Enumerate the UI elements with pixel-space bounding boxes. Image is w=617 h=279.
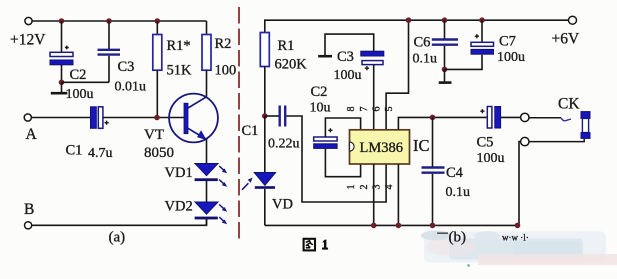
label (b) faint	[437, 230, 529, 267]
wire R2 bottom to collector	[206, 70, 208, 96]
wire C2 bottom lead	[61, 65, 63, 83]
wire pin5 output row	[398, 117, 487, 129]
wire R1 bottom lead	[156, 70, 158, 117]
svg-text:1: 1	[346, 185, 357, 190]
wire C3 top to ground elbow	[325, 34, 374, 55]
svg-text:C1: C1	[242, 123, 259, 139]
svg-text:R1: R1	[278, 38, 295, 54]
node junction C2 top	[59, 18, 65, 24]
svg-text:(b): (b)	[449, 230, 467, 246]
wire bottom rail right	[265, 224, 520, 226]
wire VD2 to rail B	[206, 219, 208, 225]
wire C2-C3 bottom link	[62, 81, 110, 83]
capacitor C3 0.01u	[98, 50, 147, 95]
wire C5 to output terminal	[501, 116, 521, 118]
svg-text:VD1: VD1	[165, 165, 193, 181]
ground under C6	[439, 69, 452, 82]
ground under C2	[51, 82, 68, 93]
svg-text:4.7u: 4.7u	[88, 146, 113, 161]
pin 4 label	[384, 185, 395, 190]
svg-text:B: B	[24, 201, 34, 218]
svg-text:0.22u: 0.22u	[268, 137, 300, 152]
wire C2 bottom to pin1	[325, 149, 360, 177]
wire A to C1	[32, 117, 91, 119]
wire VD to bottom rail	[264, 189, 266, 226]
pin 2 label	[359, 185, 370, 190]
node junction R1 top	[155, 18, 161, 24]
node junction C4 top	[430, 115, 436, 121]
svg-text:w·w ·l·: w·w ·l·	[502, 233, 529, 243]
svg-text:R2: R2	[215, 36, 232, 52]
wire C3 top lead	[108, 21, 110, 49]
pin 1 label	[346, 185, 357, 190]
capacitor C5 100u	[477, 107, 505, 167]
svg-text:A: A	[26, 126, 38, 143]
wire R1 top lead	[156, 21, 158, 35]
dashed separator line	[238, 7, 240, 240]
wire node to VD	[264, 116, 266, 172]
op-amp IC LM386	[350, 130, 410, 164]
svg-text:51K: 51K	[167, 63, 193, 79]
wire rail B	[32, 219, 207, 225]
svg-text:C1: C1	[66, 143, 83, 159]
label (a)	[109, 230, 126, 246]
node junction pin4 rail	[396, 223, 402, 229]
photodiode VD	[242, 173, 293, 213]
svg-text:100u: 100u	[66, 87, 94, 102]
capacitor C2 10u (pin1-pin8)	[310, 84, 338, 148]
wire R2 top lead	[206, 21, 208, 35]
node junction C2 bottom	[59, 80, 65, 86]
terminal output top	[521, 113, 529, 121]
jack switch hook	[561, 118, 571, 121]
wire C6 top lead	[444, 20, 446, 39]
svg-text:100u: 100u	[334, 68, 362, 83]
svg-text:10u: 10u	[310, 101, 331, 116]
svg-text:(a): (a)	[109, 230, 126, 246]
wire C3 bottom to pin7	[373, 65, 375, 130]
node junction C4 rail	[430, 223, 436, 229]
transistor VT 8050	[144, 94, 218, 161]
svg-text:VD: VD	[272, 197, 293, 213]
wire C2 top lead	[61, 21, 63, 53]
wire emitter to VD1	[206, 139, 208, 164]
wire VD1 to VD2	[206, 181, 208, 202]
svg-text:VT: VT	[144, 127, 164, 143]
terminal output bottom	[521, 137, 529, 145]
svg-text:7: 7	[359, 107, 370, 112]
wire R1 bottom to node	[264, 67, 266, 117]
node junction C6/C7 bottom	[442, 67, 448, 73]
node junction R1/C1/VD	[262, 113, 268, 119]
capacitor C4 0.1u	[422, 165, 471, 200]
svg-text:2: 2	[359, 185, 370, 190]
svg-text:C4: C4	[446, 165, 464, 181]
node junction C6 rail	[442, 17, 448, 23]
terminal +12V	[10, 17, 46, 48]
svg-text:6: 6	[372, 107, 383, 112]
svg-text:100: 100	[215, 63, 237, 79]
LED VD2	[165, 199, 228, 225]
wire C6-C7 bottom link	[445, 55, 483, 70]
wire bottom terminal to rail	[519, 142, 520, 226]
svg-text:4: 4	[384, 185, 395, 190]
wire C3 bottom lead	[108, 56, 110, 83]
capacitor C2 100u	[50, 46, 94, 102]
pin 3 label	[372, 185, 383, 190]
svg-text:LM386: LM386	[360, 140, 404, 156]
wire pin6 to rail	[386, 20, 408, 130]
svg-text:+6V: +6V	[552, 31, 580, 48]
node junction pin6 rail	[406, 17, 412, 23]
wire pin2 to bottom rail	[373, 164, 375, 225]
svg-text:8050: 8050	[144, 145, 174, 161]
svg-text:100u: 100u	[497, 50, 525, 65]
pin 5 label	[384, 107, 395, 112]
wire top rail left	[32, 20, 206, 22]
ground bar near C3	[318, 55, 332, 58]
node junction C3 top	[106, 18, 112, 24]
label IC	[413, 136, 430, 155]
wire C7 top lead	[481, 20, 483, 42]
node junction rail end	[515, 223, 521, 229]
svg-text:0.1u: 0.1u	[446, 185, 471, 200]
resistor R1 620K	[260, 33, 307, 73]
label CK	[558, 96, 580, 113]
pin 6 label	[372, 107, 383, 112]
node junction base/R1	[154, 115, 160, 121]
watermark blob	[421, 231, 617, 266]
svg-text:R1*: R1*	[167, 38, 191, 54]
wire C6 bottom lead	[444, 46, 446, 70]
resistor R1* 51K	[153, 35, 192, 79]
wire C4 bottom lead	[432, 174, 434, 226]
wire bottom terminal to jack sleeve	[529, 139, 584, 142]
svg-text:C2: C2	[70, 67, 87, 83]
terminal +6V	[552, 16, 580, 47]
svg-text:5: 5	[384, 107, 395, 112]
wire top rail right	[265, 20, 569, 32]
svg-text:VD2: VD2	[165, 199, 193, 215]
terminal A	[24, 114, 37, 143]
wire to jack hook	[529, 117, 561, 119]
svg-text:8: 8	[346, 107, 357, 112]
svg-text:C3: C3	[337, 49, 354, 65]
terminal B	[24, 201, 34, 229]
label figure 1	[304, 239, 328, 251]
wire node to C1	[265, 115, 279, 117]
pin 7 label	[359, 107, 370, 112]
node junction C7 rail	[479, 17, 485, 23]
svg-text:C3: C3	[118, 59, 135, 75]
capacitor C3 100u (bypass pin7)	[334, 49, 384, 83]
LED VD1	[165, 164, 228, 187]
svg-text:C2: C2	[311, 84, 328, 100]
svg-text:620K: 620K	[275, 57, 308, 73]
capacitor C1 0.22u	[242, 106, 300, 152]
capacitor C6 0.1u	[413, 35, 459, 67]
jack plug	[581, 112, 590, 139]
wire C4 top lead	[432, 117, 434, 166]
wire C1 to pin3 (down-right route)	[286, 116, 386, 202]
svg-text:CK: CK	[558, 96, 580, 113]
svg-text:C6: C6	[414, 35, 431, 51]
resistor R2 100	[202, 35, 236, 79]
capacitor C7 100u	[471, 34, 525, 66]
wire C1 to base	[103, 117, 184, 119]
wire pin4 to bottom rail	[397, 164, 399, 225]
svg-text:0.1u: 0.1u	[413, 52, 438, 67]
svg-text:C7: C7	[499, 34, 516, 50]
svg-text:IC: IC	[413, 136, 430, 155]
svg-text:100u: 100u	[477, 151, 505, 166]
svg-text:0.01u: 0.01u	[115, 80, 147, 95]
wire C2 top to pin8	[325, 118, 360, 137]
node junction pin2 rail	[371, 223, 377, 229]
pin 8 label	[346, 107, 357, 112]
capacitor C1 4.7u	[66, 107, 113, 161]
svg-text:+12V: +12V	[10, 32, 46, 49]
svg-text:C5: C5	[477, 135, 494, 151]
